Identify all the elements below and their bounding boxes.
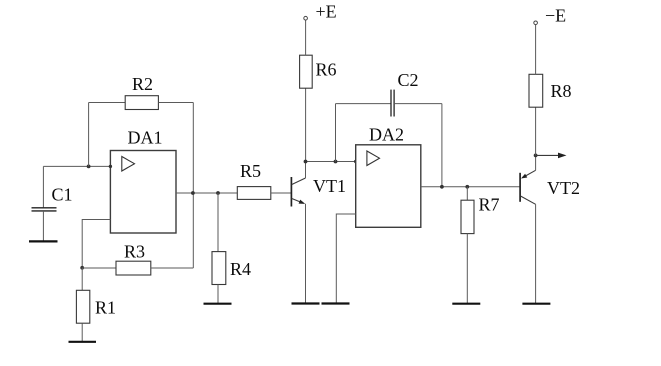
wire R3 right vertical up to output node [192,193,194,268]
label R5 [240,161,261,181]
ground under VT2 [522,303,550,305]
node B junction R3 left [80,266,84,270]
wire R3 right horizontal [151,267,194,269]
resistor R5 [237,187,270,200]
wire R2 right horizontal [158,102,193,104]
svg-text:C2: C2 [398,70,419,90]
op-amp U2 DA2 box [356,145,421,228]
label R2 [132,74,153,94]
wire C1 top lead [42,166,44,207]
ground under VT1 [292,302,320,304]
wire C2 left vertical [335,104,337,162]
wire VT2 node up to R8 [535,107,537,155]
wire C1 bottom lead [42,211,44,241]
op-amp U1 DA1 box [110,151,176,234]
label R7 [479,195,500,215]
wire R5 to VT1 base [271,192,292,194]
wire DA1 output to R5 [176,192,237,194]
label VT1 [313,176,346,196]
op-amp DA2 triangle symbol [367,151,380,166]
transistor VT2 emitter diagonal with arrow toward base [521,170,536,178]
svg-text:−E: −E [545,6,566,26]
resistor R7 [461,200,474,233]
svg-text:C1: C1 [52,185,73,205]
svg-text:R7: R7 [479,195,500,215]
label VT2 [547,178,580,198]
node C2 branch junction [334,160,338,164]
wire R7 top lead [466,187,468,200]
svg-text:VT1: VT1 [313,176,346,196]
transistor Q2 VT2 base bar [519,173,521,202]
wire R6 top lead [305,20,307,55]
wire VT2 emitter up to node [535,155,537,170]
svg-text:R6: R6 [316,60,337,80]
op-amp DA1 triangle symbol [122,157,135,172]
terminal +E circle [304,16,308,20]
wire DA1 lower input [82,220,110,268]
wire R3 left horizontal [82,267,116,269]
resistor R3 [116,261,151,275]
wire node VT1 collector to DA2 input [306,161,356,163]
wire R4 bottom lead [217,285,219,304]
ground under R1 [69,341,97,343]
svg-text:+E: +E [316,2,337,22]
label R6 [316,60,337,80]
svg-text:R8: R8 [551,81,572,101]
resistor R4 [212,252,226,285]
wire DA2 output to VT2 base [421,186,520,188]
node DA1 output junction [191,191,195,195]
output arrow right [536,153,567,159]
svg-text:R1: R1 [95,298,116,318]
transistor VT2 collector diagonal [521,196,536,204]
capacitor C2 [391,90,394,117]
svg-text:DA2: DA2 [369,125,404,145]
label C2 [398,70,419,90]
svg-text:R5: R5 [240,161,261,181]
ground under C1 [29,240,58,242]
capacitor C1 [32,208,57,211]
svg-text:VT2: VT2 [547,178,580,198]
node R7 junction [465,185,469,189]
node DA1 input pin dot [109,165,112,168]
resistor R8 [529,74,543,107]
svg-text:R2: R2 [132,74,153,94]
label R1 [95,298,116,318]
wire R7 bottom lead [466,234,468,303]
node C2 return junction [440,185,444,189]
label DA1 [128,128,163,148]
wire VT2 collector down [535,204,537,303]
wire R8 top lead [535,25,537,75]
wire R1 bottom lead [81,323,83,341]
transistor VT1 collector diagonal [292,178,306,185]
svg-text:R4: R4 [230,259,251,279]
resistor R6 [300,55,313,88]
resistor R2 [125,96,158,110]
node DA2 input pin dot [354,160,357,163]
label -E [545,6,566,26]
ground under R4 [204,303,232,305]
node R4 junction [216,191,220,195]
label R3 [124,242,145,262]
ground under R7 [452,303,480,305]
wire C2 left horizontal [336,103,392,105]
wire VT1 collector up to node [305,162,307,179]
resistor R1 [76,290,89,323]
wire R6 bottom lead [305,88,307,161]
label +E [316,2,337,22]
label R4 [230,259,251,279]
transistor Q1 VT1 base bar [290,177,292,207]
node VT1 collector junction [304,160,308,164]
transistor VT1 emitter diagonal with arrow [292,199,305,204]
terminal -E circle [534,21,538,25]
wire R2 left horizontal [89,102,126,104]
node A junction on input wire [87,165,91,169]
wire R2 right vertical down to output node [192,103,194,194]
wire C2 right horizontal [394,103,442,105]
wire VT1 emitter down [305,204,307,303]
wire R1 top lead [81,268,83,291]
label R8 [551,81,572,101]
label DA2 [369,125,404,145]
wire input horizontal to DA1 [43,165,110,167]
node VT2 output junction [534,154,538,158]
svg-text:R3: R3 [124,242,145,262]
wire R4 top lead [217,193,219,252]
wire DA2 lower input to ground [336,214,355,303]
svg-text:DA1: DA1 [128,128,163,148]
wire C2 right vertical down to output [441,104,443,187]
ground under DA2 input [322,302,350,304]
wire R2 left vertical [88,103,90,167]
label C1 [52,185,73,205]
